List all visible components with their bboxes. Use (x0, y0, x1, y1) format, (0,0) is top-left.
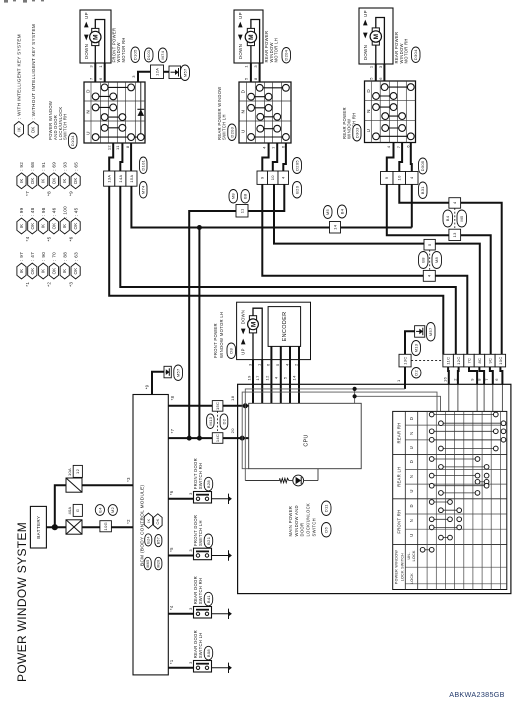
svg-text:DOWN: DOWN (241, 310, 246, 325)
svg-text:B8: B8 (421, 257, 426, 263)
svg-text:: 63: : 63 (73, 252, 78, 261)
svg-text:IK: IK (19, 269, 24, 274)
connector pin 4 (278, 171, 289, 184)
svg-text:B41: B41 (206, 595, 211, 604)
svg-text:6: 6 (378, 77, 383, 80)
svg-text:MOTOR RH: MOTOR RH (404, 38, 409, 63)
svg-text:FRONT RH: FRONT RH (397, 510, 402, 534)
svg-text:IK: IK (62, 224, 67, 229)
svg-text:: 48: : 48 (30, 207, 35, 216)
svg-text:SWITCH LH: SWITCH LH (198, 520, 203, 546)
door switch FRONT DOOR SWITCH LH (194, 548, 212, 560)
svg-text:13A: 13A (107, 175, 112, 183)
wire 7C to main switch pin 9 (469, 367, 477, 384)
connector B21 (204, 534, 213, 548)
main switch contact table (393, 411, 507, 589)
svg-text:4: 4 (261, 146, 266, 149)
connector M5 (457, 210, 467, 227)
svg-text:OK: OK (73, 223, 78, 230)
svg-text:D101: D101 (146, 49, 151, 60)
connector pin 9 (381, 172, 394, 185)
svg-text:2: 2 (452, 378, 457, 381)
wires M4/encoder to CPU (252, 360, 254, 404)
motor M1 FRONT POWER WINDOW MOTOR RH (80, 10, 111, 63)
svg-text:10A: 10A (67, 468, 72, 476)
svg-text:*9: *9 (68, 191, 73, 196)
svg-text:12: 12 (264, 375, 269, 381)
svg-text:B4: B4 (339, 208, 344, 214)
svg-text:*6: *6 (68, 236, 73, 241)
wire SW1 pin11 to 14A (120, 143, 122, 171)
svg-text:N: N (409, 519, 414, 522)
junction on BCM *7 wire (187, 436, 192, 441)
svg-text:B57: B57 (157, 537, 161, 544)
connector M57 (174, 365, 183, 381)
svg-text:: WITH INTELLIGENT KEY SYSTEM: : WITH INTELLIGENT KEY SYSTEM (17, 34, 22, 119)
svg-text:IK: IK (62, 178, 67, 183)
chassis ground (228, 663, 230, 673)
connector B8 (241, 190, 250, 204)
ground M57 (164, 366, 171, 378)
svg-text:: 65: : 65 (73, 162, 78, 171)
connector M8 (229, 190, 238, 204)
svg-text:5: 5 (244, 77, 249, 80)
svg-text:11: 11 (239, 208, 244, 213)
wire door switch to chassis ground (212, 555, 229, 557)
connector pin 11C (443, 354, 454, 367)
svg-text:*9: *9 (144, 384, 149, 389)
door switch REAR DOOR SWITCH RH (194, 607, 212, 619)
wire net lock-signal: 15A to rear switch RH pin 4 (line Q) (131, 186, 411, 227)
svg-text:14A: 14A (118, 175, 123, 183)
connector M74 (159, 48, 168, 63)
connector D8 (227, 343, 236, 359)
ground M57 (169, 66, 181, 79)
wire 13C to main switch pin 1 (404, 367, 406, 389)
svg-text:M57: M57 (176, 368, 181, 377)
connector pin 10G (100, 521, 112, 532)
svg-text:M65: M65 (146, 560, 150, 568)
wire 8C to main switch pin 8 (479, 367, 484, 384)
door switch REAR DOOR SWITCH LH (194, 661, 212, 673)
svg-text:SWITCH RH: SWITCH RH (198, 463, 203, 490)
connector B20 (293, 182, 302, 199)
connector M13 (412, 341, 421, 356)
svg-text:11: 11 (115, 145, 120, 150)
wire BCM pin *7 to main switch pin 20 (168, 437, 248, 439)
connector pin 15A (126, 171, 137, 186)
svg-text:12: 12 (106, 145, 111, 151)
wire battery node to fuse 10A (55, 485, 66, 527)
svg-text:15A: 15A (129, 175, 134, 183)
wire BCM pin *8 to main switch pin 18 (168, 405, 248, 407)
connector D11 (322, 501, 332, 516)
svg-text:3: 3 (253, 65, 258, 68)
wire BCM pin *4 to door switch (168, 613, 193, 615)
battery (30, 506, 46, 548)
svg-text:UP: UP (84, 12, 89, 19)
connector pin 13C (399, 354, 411, 367)
connector D101 (140, 157, 148, 174)
connector B8 (419, 252, 429, 269)
connector pin 14A (115, 171, 126, 186)
svg-text:11C: 11C (446, 357, 451, 365)
svg-text:OK: OK (30, 177, 35, 184)
svg-text:: 46: : 46 (52, 207, 57, 216)
svg-text:*3: *3 (126, 477, 131, 482)
wire pin18 drop to LED circuit (244, 406, 246, 481)
svg-text:SWITCH LH: SWITCH LH (222, 114, 227, 140)
wire pin20 drop to CPU bottom (242, 438, 249, 469)
svg-text:OK: OK (30, 223, 35, 230)
svg-text:LOCK: LOCK (410, 573, 414, 584)
svg-text:1: 1 (396, 379, 401, 382)
svg-text:*7: *7 (170, 428, 175, 433)
connector join dotted (429, 250, 431, 270)
connector pin 9 (257, 171, 268, 184)
svg-text:*2: *2 (47, 282, 52, 287)
svg-text:: 47: : 47 (30, 252, 35, 261)
svg-text:M74: M74 (141, 185, 146, 194)
svg-text:*1: *1 (25, 282, 30, 287)
svg-text:U: U (85, 131, 90, 135)
connector M2 (108, 505, 117, 516)
connector pin 12A (151, 65, 164, 79)
svg-text:*8: *8 (47, 191, 52, 196)
svg-text:: 70: : 70 (52, 252, 57, 261)
svg-text:12: 12 (75, 468, 80, 474)
svg-text:D2: D2 (221, 418, 226, 424)
svg-text:DOOR: DOOR (300, 523, 305, 537)
svg-text:D2: D2 (414, 369, 419, 375)
svg-text:CPU: CPU (303, 434, 309, 446)
svg-text:OK: OK (51, 177, 56, 184)
svg-text:: 45: : 45 (73, 207, 78, 216)
chassis ground (228, 550, 230, 560)
connector M57 (181, 65, 190, 81)
svg-text:M13: M13 (208, 416, 213, 425)
svg-text:D11: D11 (324, 504, 329, 512)
svg-text:IK: IK (146, 518, 151, 522)
connector join dotted 15C-14C (217, 411, 219, 433)
wire fusible link to BCM pin *2 (82, 526, 133, 528)
svg-text:D: D (85, 89, 90, 93)
svg-text:SWITCH LH: SWITCH LH (198, 632, 203, 658)
wire door switch to chassis ground (212, 498, 229, 500)
connector pin 14C (212, 433, 223, 444)
svg-text:IK: IK (62, 269, 67, 274)
svg-text:U: U (409, 489, 414, 492)
svg-text:M57: M57 (428, 327, 433, 336)
svg-text:20: 20 (230, 428, 235, 434)
svg-text:BATTERY: BATTERY (36, 516, 41, 539)
wire motor M2 to switch D203 (250, 63, 252, 82)
fuse box pin G (73, 504, 82, 516)
svg-text:16: 16 (443, 377, 448, 383)
connector stack S3 pin 4 (449, 198, 461, 209)
svg-text:UN-: UN- (407, 552, 411, 560)
connector pin 14 (M5/B4) (330, 222, 341, 234)
encoder box (268, 307, 301, 347)
wire net PW-RH-up: 13A to 11C (109, 186, 443, 354)
svg-text:WINDOW AND: WINDOW AND (294, 505, 299, 536)
legend symbol OK (28, 122, 38, 139)
connector D305 (419, 158, 428, 174)
svg-text:POWER WINDOW: POWER WINDOW (395, 550, 399, 584)
svg-text:U: U (409, 446, 414, 449)
svg-text:OK: OK (73, 177, 78, 184)
svg-text:REAR RH: REAR RH (397, 422, 402, 443)
svg-text:N: N (85, 110, 90, 114)
svg-text:14: 14 (292, 375, 297, 381)
svg-text:SWITCH RH: SWITCH RH (63, 113, 68, 140)
wire net SW3-9 to 9C (387, 184, 449, 235)
connector B08 (204, 646, 213, 660)
svg-text:E4: E4 (97, 507, 102, 513)
svg-text:B28: B28 (206, 480, 211, 489)
legend OK in BCM (154, 514, 163, 529)
svg-text:13C: 13C (403, 356, 408, 364)
svg-text:*1: *1 (169, 659, 174, 664)
svg-text:DOWN: DOWN (238, 44, 243, 59)
svg-text:40A: 40A (67, 506, 72, 514)
svg-text:*6: *6 (169, 490, 174, 495)
svg-text:17: 17 (255, 375, 260, 381)
wire fuse 10A to BCM pin *3 (82, 484, 133, 486)
svg-text:9: 9 (470, 378, 475, 381)
wire SW1 pin8 to 15A (130, 143, 132, 171)
ground wire main switch pin 1 via 13C (405, 331, 415, 354)
svg-text:15C: 15C (215, 402, 220, 410)
diode D SW1 (138, 109, 145, 116)
svg-text:: 100: : 100 (62, 206, 67, 218)
svg-text:UP: UP (238, 12, 243, 19)
legend IK in BCM (144, 513, 153, 528)
svg-text:9: 9 (384, 176, 389, 179)
junction on line Q (197, 225, 202, 230)
svg-text:G: G (75, 509, 80, 512)
connector stack S4 pin 4 (423, 270, 435, 281)
wire net PW-RH-down: 14A to 12C (120, 186, 456, 354)
svg-text:D: D (240, 89, 245, 93)
connector M8 (432, 252, 442, 269)
svg-text:9C: 9C (487, 358, 492, 364)
fusible link 40A G (66, 520, 82, 534)
svg-text:: WITHOUT INTELLIGENT KEY SYST: : WITHOUT INTELLIGENT KEY SYSTEM (31, 24, 36, 119)
connector M20 (155, 557, 162, 570)
svg-text:1: 1 (257, 363, 262, 366)
svg-text:B31: B31 (420, 186, 425, 195)
wire BCM pin *6 to door switch (168, 498, 193, 500)
legend symbol IK (14, 122, 23, 138)
wire CPU feed rail (355, 396, 441, 411)
svg-text:DOWN: DOWN (84, 44, 89, 59)
svg-text:4: 4 (281, 176, 286, 179)
svg-text:14C: 14C (215, 434, 220, 442)
junction pin18 riser (243, 403, 248, 408)
wire diode rail SW1 (140, 82, 142, 134)
svg-text:*4: *4 (25, 236, 30, 241)
wire pin20 rail to table (242, 392, 437, 438)
svg-text:M: M (373, 34, 380, 40)
wire motor M3 to switch D303 (375, 64, 377, 81)
svg-text:8: 8 (125, 145, 130, 148)
connector D104 (69, 133, 78, 149)
svg-text:9: 9 (260, 176, 265, 179)
connector M13 (207, 414, 215, 429)
table contact pattern (432, 414, 496, 416)
connector B4 (338, 205, 347, 218)
svg-text:*4: *4 (169, 605, 174, 610)
svg-text:B20: B20 (294, 185, 299, 194)
svg-text:M13: M13 (413, 343, 418, 352)
svg-text:*8: *8 (170, 395, 175, 400)
resistor R and diode D circuit (245, 480, 279, 482)
connector B41 (204, 592, 213, 606)
svg-text:8: 8 (253, 77, 258, 80)
wire 12C to main switch pin 2 (457, 367, 460, 384)
svg-text:7: 7 (396, 145, 401, 148)
svg-text:D305: D305 (420, 160, 425, 171)
svg-text:LOCK: LOCK (412, 550, 416, 561)
connector pin 10 (268, 171, 279, 184)
svg-text:7: 7 (89, 77, 94, 80)
svg-text:D104: D104 (70, 135, 75, 146)
connector B28 (204, 477, 213, 491)
connector D101 (145, 48, 154, 62)
fuse box pin 12 (73, 465, 82, 477)
svg-text:6: 6 (266, 363, 271, 366)
junction pin20 riser (240, 436, 245, 441)
svg-text:N: N (409, 432, 414, 435)
svg-text:19: 19 (247, 375, 252, 381)
connector D2 (412, 368, 422, 379)
motor symbol M4 (249, 316, 256, 320)
connector B31 (419, 182, 428, 199)
svg-text:REAR DOOR: REAR DOOR (193, 576, 198, 604)
svg-text:M20: M20 (157, 560, 161, 568)
svg-text:IK: IK (16, 127, 21, 132)
svg-text:MAIN POWER: MAIN POWER (288, 506, 293, 537)
svg-text:D304: D304 (413, 49, 418, 60)
svg-text:*5: *5 (47, 236, 52, 241)
connector pin 15C (212, 401, 223, 412)
svg-text:M: M (250, 321, 257, 327)
svg-text:D: D (409, 504, 414, 507)
svg-text:14: 14 (332, 224, 337, 230)
svg-text:4: 4 (409, 176, 414, 179)
wire BCM pin *9 to ground M57 (152, 372, 164, 395)
svg-text:IK: IK (19, 178, 24, 183)
wire battery positive (46, 526, 66, 528)
svg-text:1: 1 (244, 65, 249, 68)
connector stack S4 pin 5 (424, 239, 435, 250)
svg-text:3: 3 (378, 65, 383, 68)
wire motor M1 to switch D104 (94, 63, 96, 82)
svg-text:DOWN: DOWN (363, 45, 368, 60)
svg-text:REAR LH: REAR LH (397, 467, 402, 487)
svg-text:*3: *3 (68, 282, 73, 287)
svg-text:: 97: : 97 (19, 252, 24, 261)
svg-text:: 91: : 91 (41, 162, 46, 171)
connector D2 (220, 414, 228, 429)
connector D304 (412, 47, 421, 63)
svg-text:U: U (240, 129, 245, 133)
svg-text:D: D (409, 460, 414, 463)
wire SW3 pin4 to 9 (387, 143, 394, 172)
ground wire SW1 pin 3 to M57 (138, 72, 151, 82)
connector D204 (282, 48, 291, 64)
svg-text:LOCK SWITCH: LOCK SWITCH (401, 553, 405, 582)
junction CPU feed (353, 387, 357, 391)
svg-text:B24: B24 (147, 536, 151, 543)
svg-text:10: 10 (397, 175, 402, 181)
svg-text:D101: D101 (141, 159, 146, 170)
svg-text:UP: UP (241, 348, 246, 354)
svg-text:D105: D105 (133, 49, 138, 60)
svg-text:3: 3 (131, 75, 136, 78)
svg-text:4: 4 (273, 376, 278, 379)
connector stack S3 pin 13 (449, 229, 461, 240)
svg-text:D: D (366, 89, 371, 93)
connector pin 9C (485, 354, 495, 367)
motor M2 REAR POWER WINDOW MOTOR LH (234, 10, 263, 63)
svg-text:D8: D8 (229, 347, 234, 353)
svg-text:REAR DOOR: REAR DOOR (193, 630, 198, 658)
wire junction drop to BCM row (198, 228, 200, 439)
svg-text:*7: *7 (25, 191, 30, 196)
connector D203 (228, 124, 236, 141)
wire 10C to main switch pin 6 (500, 367, 502, 384)
connector pin 10C (495, 354, 506, 367)
wire motor M4 loop (253, 308, 262, 359)
connector pin 12C (453, 354, 463, 367)
svg-text:D: D (409, 417, 414, 420)
junction on BCM *7 wire (197, 436, 202, 441)
connector M5 (324, 206, 333, 219)
svg-text:N: N (240, 110, 245, 114)
door switch FRONT DOOR SWITCH RH (194, 492, 212, 504)
connector M74 (140, 182, 148, 199)
CPU box (249, 403, 362, 468)
svg-text:FRONT DOOR: FRONT DOOR (193, 458, 198, 489)
wire net SW2-10 to 8C (274, 184, 424, 243)
svg-text:OK: OK (30, 268, 35, 275)
svg-text:: 92: : 92 (19, 162, 24, 171)
wire net SW2-9 to 7C (262, 184, 423, 275)
svg-text:4: 4 (284, 363, 289, 366)
svg-text:LOCK/UNLOCK: LOCK/UNLOCK (306, 503, 311, 537)
svg-text:10G: 10G (103, 522, 108, 531)
svg-text:FRONT POWER: FRONT POWER (213, 323, 218, 358)
svg-text:D204: D204 (284, 49, 289, 60)
switch SW2 REAR POWER WINDOW SWITCH LH (D203) (239, 82, 291, 143)
svg-text:FRONT DOOR: FRONT DOOR (193, 515, 198, 546)
wire motor internal loop (376, 18, 385, 65)
motor M4 FRONT POWER WINDOW MOTOR LH outer box (237, 302, 311, 359)
svg-text:BCM (BODY CONTROL MODULE): BCM (BODY CONTROL MODULE) (139, 484, 144, 566)
connector D6 (322, 523, 332, 538)
wire BCM pin *1 to door switch (168, 667, 193, 669)
junction battery node (52, 524, 58, 530)
connector D105 (131, 47, 140, 63)
wire SW3 pin6 to 4 (411, 143, 412, 172)
svg-text:4: 4 (386, 145, 391, 148)
wire SW3 pin7 to 10 (399, 143, 402, 172)
svg-text:ABKWA2385GB: ABKWA2385GB (449, 690, 505, 699)
svg-text:POWER WINDOW SYSTEM: POWER WINDOW SYSTEM (15, 522, 29, 682)
connector D205 (293, 158, 302, 174)
